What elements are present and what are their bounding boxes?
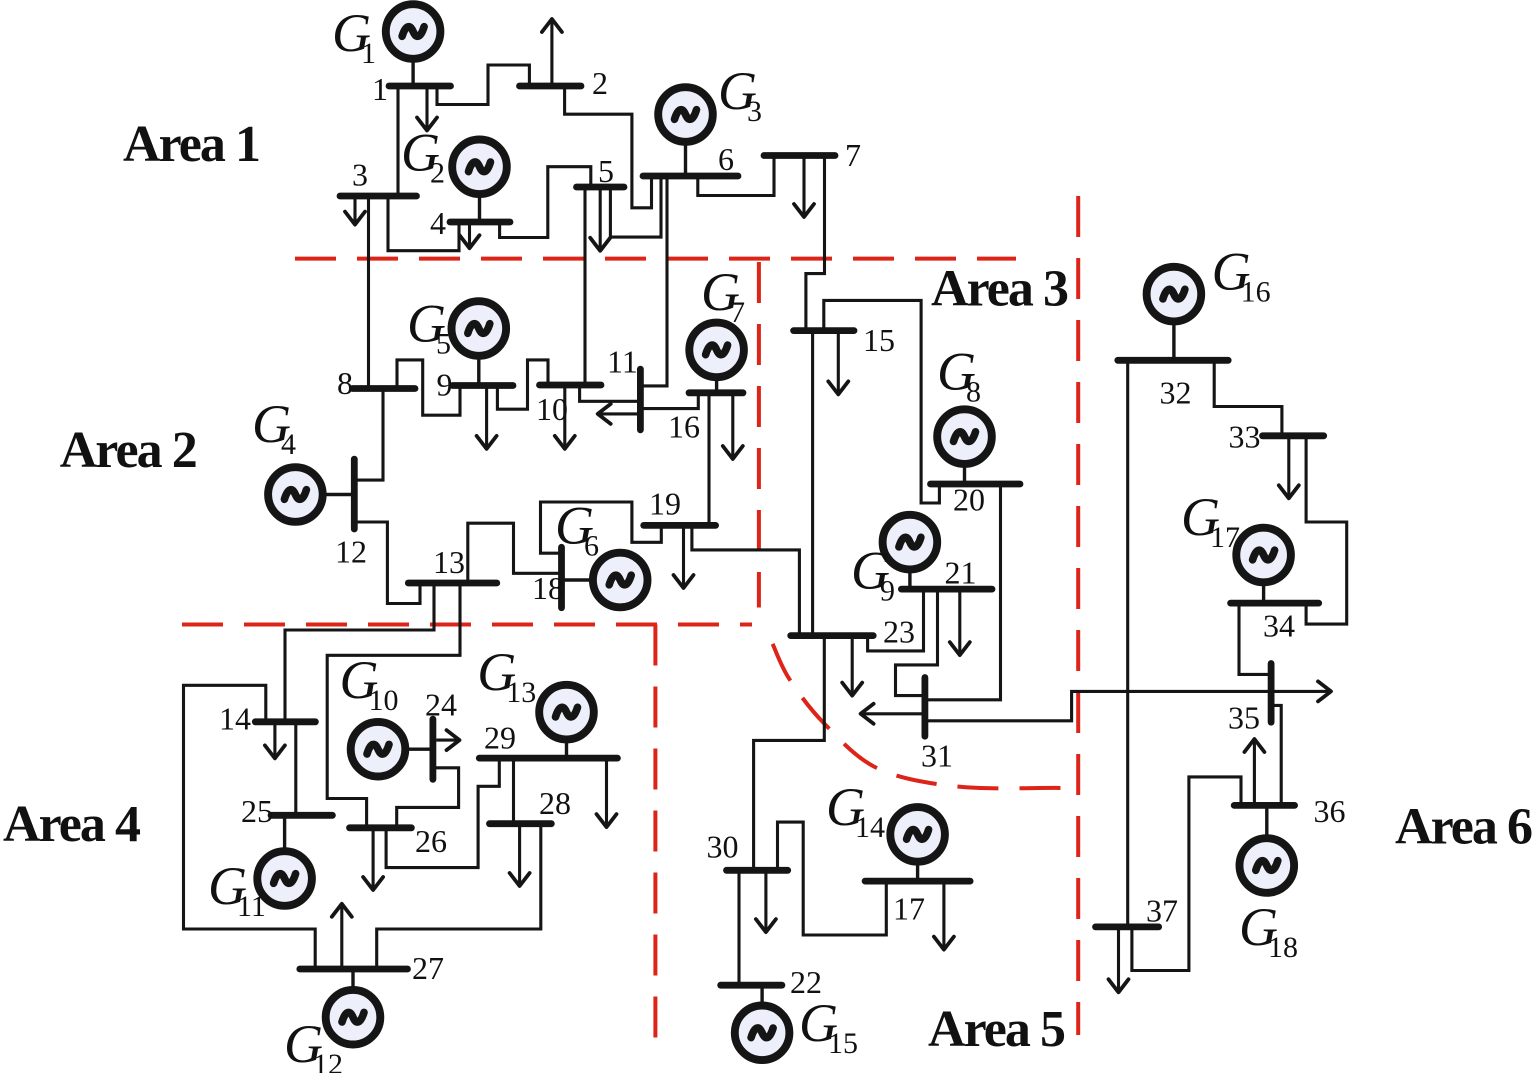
load arrow bus 10 xyxy=(563,385,566,447)
wire bus35-bus36 xyxy=(1275,705,1282,805)
svg-text:2: 2 xyxy=(592,65,608,101)
svg-text:G10: G10 xyxy=(340,650,399,717)
load arrow bus 19 xyxy=(682,525,685,586)
bus 9 xyxy=(453,382,514,389)
svg-text:Area 5: Area 5 xyxy=(928,1001,1066,1058)
generator G14 xyxy=(890,807,945,881)
bus 6 xyxy=(643,173,738,180)
bus 16 xyxy=(689,389,743,396)
generator G8 xyxy=(937,409,992,484)
svg-text:37: 37 xyxy=(1146,893,1178,929)
wire bus2-bus6 xyxy=(565,86,652,208)
wire bus34-bus35 xyxy=(1239,603,1271,674)
svg-text:10: 10 xyxy=(536,391,568,427)
bus 4 xyxy=(450,219,510,226)
area 2/3 boundary (red dashed vertical) xyxy=(757,262,761,608)
load arrow bus 3 xyxy=(353,196,356,223)
svg-text:Area 1: Area 1 xyxy=(123,116,261,173)
svg-text:9: 9 xyxy=(437,367,453,403)
wire bus7-bus15 xyxy=(806,156,825,331)
wire bus28-bus27 xyxy=(377,824,541,969)
bus 3 xyxy=(340,193,417,200)
generator G1 xyxy=(386,4,441,86)
bus 13 xyxy=(408,580,497,587)
svg-text:7: 7 xyxy=(845,137,861,173)
svg-text:G1: G1 xyxy=(332,3,376,70)
svg-text:34: 34 xyxy=(1263,608,1295,644)
svg-text:11: 11 xyxy=(607,344,638,380)
bus 26 xyxy=(350,824,412,831)
bus 5 xyxy=(577,184,625,191)
bus 37 xyxy=(1096,924,1159,931)
svg-text:G6: G6 xyxy=(555,496,599,563)
bus 10 xyxy=(540,382,602,389)
wire bus20-bus31 xyxy=(925,484,1001,700)
generator G6 xyxy=(562,553,648,608)
bus 19 xyxy=(644,522,716,529)
svg-text:21: 21 xyxy=(945,555,977,591)
svg-text:G8: G8 xyxy=(937,342,981,409)
svg-text:G13: G13 xyxy=(477,642,536,709)
load arrow bus 37 xyxy=(1117,927,1120,991)
bus 27 xyxy=(300,966,408,973)
generator G5 xyxy=(452,301,507,385)
svg-text:8: 8 xyxy=(337,365,353,401)
svg-text:32: 32 xyxy=(1160,375,1192,411)
load arrow bus 15 xyxy=(837,331,840,393)
generator G4 xyxy=(268,467,354,522)
svg-text:G18: G18 xyxy=(1239,897,1298,964)
wire bus13-bus26 xyxy=(327,583,460,828)
bus 24 xyxy=(429,719,436,779)
wire bus16-bus19 xyxy=(707,393,710,526)
injection arrow bus 27 xyxy=(340,905,343,969)
wire bus13-bus18 xyxy=(468,523,562,583)
load arrow bus 21 xyxy=(958,589,961,654)
svg-text:12: 12 xyxy=(335,534,367,570)
svg-text:19: 19 xyxy=(649,486,681,522)
wire bus10-bus11 xyxy=(580,385,641,401)
wire bus15-bus23 xyxy=(811,331,814,636)
area 1/2 boundary (red dashed horizontal) xyxy=(295,257,1016,261)
generator G10 xyxy=(351,722,433,777)
bus 33 xyxy=(1263,432,1324,439)
injection arrow bus 2 xyxy=(550,21,553,87)
generator G16 xyxy=(1147,267,1202,360)
wire bus6-bus11 xyxy=(640,176,667,386)
bus 25 xyxy=(271,812,332,819)
svg-text:17: 17 xyxy=(893,891,925,927)
generator G15 xyxy=(735,985,790,1060)
area 5/6 boundary (red dashed vertical) xyxy=(1076,196,1080,1035)
svg-text:27: 27 xyxy=(412,950,444,986)
load arrow bus 11 xyxy=(599,412,640,415)
wire bus13-bus14 xyxy=(285,583,434,722)
wire bus11-bus16 xyxy=(640,393,698,409)
wire bus30-bus17 xyxy=(778,822,887,935)
load arrow bus 16 xyxy=(731,393,734,458)
bus 23 xyxy=(791,632,874,639)
generator G2 xyxy=(452,140,507,223)
svg-text:23: 23 xyxy=(883,614,915,650)
svg-text:25: 25 xyxy=(241,793,273,829)
svg-text:6: 6 xyxy=(718,141,734,177)
svg-text:1: 1 xyxy=(372,71,388,107)
svg-text:G4: G4 xyxy=(252,394,296,461)
bus 2 xyxy=(520,83,582,90)
load arrow bus 1 xyxy=(425,86,428,129)
wire bus30-bus22 xyxy=(737,870,740,985)
generator G18 xyxy=(1240,805,1295,892)
bus 8 xyxy=(353,385,416,392)
svg-text:Area 6: Area 6 xyxy=(1395,799,1533,856)
bus 11 xyxy=(637,369,644,430)
svg-text:15: 15 xyxy=(863,322,895,358)
wire bus8-bus9 xyxy=(397,360,460,415)
bus 7 xyxy=(764,152,835,159)
generator G9 xyxy=(883,515,938,589)
svg-text:29: 29 xyxy=(484,720,516,756)
bus 1 xyxy=(389,83,451,90)
wire bus29-bus28 xyxy=(512,758,515,824)
wire bus36-bus37 xyxy=(1132,777,1241,971)
load arrow bus 23 xyxy=(851,636,854,695)
load arrow bus 33 xyxy=(1287,436,1290,497)
svg-text:28: 28 xyxy=(539,785,571,821)
load arrow bus 5 xyxy=(599,187,602,249)
wire bus19-bus23 xyxy=(692,525,800,635)
load arrow bus 17 xyxy=(942,881,945,948)
bus 28 xyxy=(490,820,552,827)
load arrow bus 30 xyxy=(764,870,767,930)
load arrow bus 28 xyxy=(518,824,521,885)
tie arrow to bus 35 xyxy=(1319,690,1330,693)
bus 14 xyxy=(255,718,315,725)
svg-text:14: 14 xyxy=(219,701,251,737)
svg-text:G5: G5 xyxy=(407,294,451,361)
svg-text:13: 13 xyxy=(433,544,465,580)
svg-text:G3: G3 xyxy=(718,61,762,128)
load arrow bus 31 xyxy=(862,712,925,715)
svg-text:3: 3 xyxy=(352,157,368,193)
svg-text:G16: G16 xyxy=(1212,242,1271,309)
flow arrow bus 24 xyxy=(436,739,458,742)
svg-text:G7: G7 xyxy=(701,262,745,329)
injection arrow bus 36 xyxy=(1253,741,1256,806)
generator G7 xyxy=(689,323,744,393)
area 4/5 boundary (red dashed vertical) xyxy=(653,625,657,1039)
load arrow bus 7 xyxy=(802,156,805,216)
bus 35 xyxy=(1268,664,1275,723)
bus 15 xyxy=(794,327,854,334)
load arrow bus 14 xyxy=(273,722,276,757)
wire bus1-bus3 xyxy=(396,86,399,196)
generator G3 xyxy=(658,87,713,176)
svg-text:31: 31 xyxy=(921,738,953,774)
svg-text:24: 24 xyxy=(425,687,457,723)
wire bus23-bus21 xyxy=(868,589,924,651)
wire bus1-bus2 xyxy=(437,65,529,105)
generator G11 xyxy=(257,815,312,906)
bus 36 xyxy=(1234,802,1294,809)
bus 22 xyxy=(721,982,782,989)
wire bus5-bus6 xyxy=(610,176,661,237)
bus 31 xyxy=(922,678,929,737)
svg-text:G17: G17 xyxy=(1181,487,1240,554)
wire bus18-bus19 xyxy=(541,502,662,553)
svg-text:36: 36 xyxy=(1314,793,1346,829)
svg-text:4: 4 xyxy=(430,205,446,241)
svg-text:35: 35 xyxy=(1228,700,1260,736)
wire bus32-bus33 xyxy=(1214,360,1282,436)
wire bus23-bus30 xyxy=(754,636,825,871)
bus 20 xyxy=(931,481,1021,488)
svg-text:26: 26 xyxy=(415,823,447,859)
wire bus15-bus20 xyxy=(824,300,940,503)
wire bus5-bus10 xyxy=(583,187,586,385)
wire bus12-bus13 xyxy=(354,522,420,604)
svg-text:G15: G15 xyxy=(799,993,858,1060)
wire bus14-bus27 xyxy=(184,685,316,969)
area 3/5 boundary (red dashed curve) xyxy=(773,644,1079,788)
svg-text:Area 2: Area 2 xyxy=(60,422,198,479)
svg-text:G2: G2 xyxy=(401,123,445,190)
bus 30 xyxy=(727,867,788,874)
svg-text:33: 33 xyxy=(1229,419,1261,455)
wire bus33-bus34 xyxy=(1306,436,1347,624)
area 2/4 boundary (red dashed horizontal) xyxy=(182,623,752,627)
svg-text:16: 16 xyxy=(668,409,700,445)
bus 34 xyxy=(1231,600,1319,607)
wire bus8-bus12 xyxy=(354,389,383,481)
generator G17 xyxy=(1236,528,1291,603)
svg-text:Area 4: Area 4 xyxy=(3,796,141,853)
bus 32 xyxy=(1118,357,1228,364)
bus 17 xyxy=(865,878,970,885)
wire bus24-bus26 xyxy=(397,768,459,828)
wire bus14-bus25 xyxy=(294,722,297,816)
svg-text:G9: G9 xyxy=(851,541,895,608)
wire bus4-bus5 xyxy=(500,167,591,238)
wire bus6-bus7 xyxy=(698,156,774,196)
wire bus9-bus10 xyxy=(497,360,548,409)
wire bus21-bus31 xyxy=(896,589,938,696)
generator G13 xyxy=(539,685,594,758)
wire bus3-bus4 xyxy=(388,196,459,251)
bus 29 xyxy=(479,755,617,762)
bus 21 xyxy=(901,586,992,593)
load arrow bus 29 xyxy=(605,758,608,826)
bus 12 xyxy=(351,459,358,529)
svg-text:5: 5 xyxy=(598,153,614,189)
wire bus26-bus29 xyxy=(386,758,499,868)
svg-text:Area 3: Area 3 xyxy=(931,261,1069,318)
wire bus3-bus8 xyxy=(367,196,370,389)
svg-text:22: 22 xyxy=(790,964,822,1000)
svg-text:30: 30 xyxy=(707,829,739,865)
svg-text:18: 18 xyxy=(532,570,564,606)
generator G12 xyxy=(326,969,381,1045)
load arrow bus 4 xyxy=(468,222,471,247)
load arrow bus 26 xyxy=(372,828,375,889)
wire bus32-bus37 xyxy=(1126,360,1129,927)
load arrow bus 9 xyxy=(485,386,488,448)
bus 18 xyxy=(558,547,565,607)
svg-text:20: 20 xyxy=(953,482,985,518)
svg-text:G14: G14 xyxy=(826,777,885,844)
wire bus31-bus35 tie xyxy=(925,691,1319,720)
